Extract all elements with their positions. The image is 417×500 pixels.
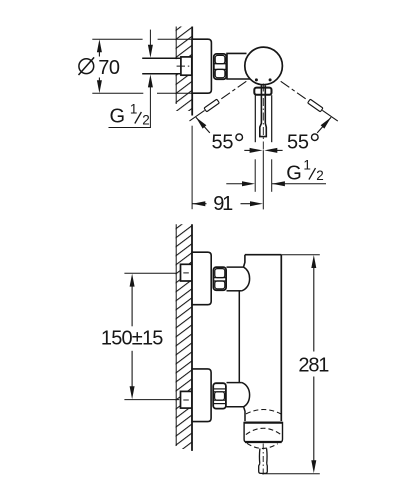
wall hatching (top view) bbox=[176, 27, 192, 112]
outlet arrow left tail bbox=[226, 183, 243, 185]
hose nipple tip bbox=[259, 464, 268, 474]
wall face line (top view) bbox=[191, 27, 193, 116]
G12 slash (right) bbox=[309, 168, 316, 180]
nut face line upper bbox=[214, 63, 227, 65]
91 dim line left bbox=[192, 203, 206, 205]
281 arrow down bbox=[311, 460, 316, 473]
dia70 ext line top bbox=[92, 38, 192, 40]
swing line left (dash-dot) bbox=[190, 110, 205, 121]
wall left boundary (front view) bbox=[175, 224, 177, 446]
outlet arrow left bbox=[242, 181, 255, 186]
91 arrow left bbox=[192, 201, 205, 206]
wall left boundary (top view) bbox=[175, 27, 177, 105]
lower boss bottom edge bbox=[227, 406, 244, 408]
svg-text:91: 91 bbox=[213, 193, 233, 215]
lever centerline bbox=[262, 84, 264, 151]
diameter symbol bbox=[79, 57, 95, 75]
55deg center tail right bbox=[277, 149, 283, 151]
outlet arrow right + G12 leader bbox=[272, 183, 326, 185]
nipple centerline bbox=[262, 444, 264, 476]
cartridge ball (top view) bbox=[245, 47, 283, 85]
upper socket centerline bbox=[183, 272, 189, 274]
upper escutcheon bbox=[192, 252, 211, 305]
150 ext line bottom bbox=[124, 399, 179, 401]
G12 slash (top-left) bbox=[135, 112, 142, 124]
supply pipe bottom line bbox=[142, 73, 181, 75]
phantom lever tip left bbox=[204, 99, 219, 112]
hose nipple right bbox=[266, 449, 268, 464]
dia70 arrow up bbox=[97, 39, 102, 52]
upper boss top edge bbox=[227, 266, 244, 268]
dia70 ext line bottom bbox=[92, 92, 192, 94]
svg-text:55: 55 bbox=[287, 131, 309, 153]
pipe centerline bbox=[177, 65, 190, 67]
nut face line lower bbox=[214, 68, 227, 70]
body left top edge bbox=[244, 255, 245, 267]
55deg center arrow left bbox=[250, 148, 263, 153]
281 arrow up bbox=[311, 255, 316, 268]
svg-text:G: G bbox=[286, 163, 302, 185]
upper boss bottom edge bbox=[227, 290, 242, 292]
outlet cup bottom band bbox=[245, 441, 282, 443]
svg-text:1: 1 bbox=[303, 158, 311, 173]
outlet cup hidden arc bbox=[246, 428, 281, 435]
lever flank line left bbox=[254, 95, 256, 142]
outlet thread ext line left bbox=[254, 159, 256, 192]
outlet hidden dome below bbox=[247, 443, 278, 448]
dia70 dim line bbox=[98, 51, 100, 82]
outlet thread ext line right bbox=[271, 159, 273, 192]
svg-text:55: 55 bbox=[212, 131, 234, 153]
upper union nut bbox=[213, 267, 226, 290]
lower socket centerline bbox=[183, 399, 189, 401]
valve body (top view) bbox=[227, 53, 251, 79]
supply pipe top line bbox=[142, 57, 181, 59]
phantom lever tip right bbox=[308, 99, 323, 112]
ball dot right bbox=[269, 78, 272, 81]
body left bottom edge bbox=[244, 407, 245, 421]
55deg center tail left bbox=[244, 149, 250, 151]
dia70 text halo bbox=[97, 58, 120, 76]
outlet cup outline bbox=[244, 422, 282, 442]
281 ext line top bbox=[281, 254, 320, 256]
escutcheon (top view) bbox=[192, 39, 211, 93]
lower boss dome bbox=[242, 383, 250, 407]
91 dim line right bbox=[241, 203, 252, 205]
150 arrow down bbox=[130, 386, 135, 399]
55deg leader right bbox=[317, 117, 331, 133]
pipe socket in wall bbox=[181, 57, 192, 75]
svg-text:150±15: 150±15 bbox=[101, 328, 163, 350]
wall face line (front view) bbox=[191, 224, 193, 451]
lever stem bbox=[260, 85, 267, 136]
svg-text:70: 70 bbox=[98, 57, 120, 79]
55deg center arrow right bbox=[264, 148, 277, 153]
G12 top leader lower bbox=[149, 87, 151, 128]
degree circle left bbox=[236, 134, 243, 141]
lever bracket bbox=[254, 88, 271, 95]
55deg leader left bbox=[196, 117, 210, 133]
upper boss dome bbox=[242, 267, 250, 291]
hose nipple left bbox=[258, 449, 260, 464]
55deg arrow right bbox=[321, 116, 333, 129]
upper socket in wall bbox=[181, 264, 192, 281]
nut chamfer cell bottom bbox=[215, 69, 225, 77]
svg-text:1: 1 bbox=[130, 101, 138, 116]
150 arrow up bbox=[130, 274, 135, 287]
wall hatching (front view) bbox=[176, 224, 192, 449]
150 ext line top bbox=[124, 272, 177, 274]
91 arrow right bbox=[250, 201, 263, 206]
degree circle right bbox=[312, 134, 319, 141]
ball dot left bbox=[255, 78, 258, 81]
281 dim line lower bbox=[313, 377, 315, 462]
outlet cup top band bbox=[244, 421, 282, 423]
281 dim line upper bbox=[313, 267, 315, 352]
lower escutcheon bbox=[192, 369, 211, 422]
lower union nut bbox=[213, 383, 226, 408]
G12 top arrow up bbox=[148, 74, 153, 87]
svg-text:2: 2 bbox=[142, 113, 150, 128]
svg-text:2: 2 bbox=[316, 168, 324, 183]
body right edge bbox=[280, 255, 282, 421]
281 ext line bottom bbox=[262, 473, 320, 475]
svg-text:G: G bbox=[110, 106, 126, 128]
dia70 arrow down bbox=[97, 80, 102, 93]
G12 top leader upper bbox=[149, 30, 151, 46]
body left mid edge bbox=[238, 291, 240, 383]
lever flank line right bbox=[271, 95, 273, 142]
lower socket in wall bbox=[181, 391, 192, 408]
swing line right (dash-dot) bbox=[322, 110, 338, 121]
lower boss top edge bbox=[227, 382, 242, 384]
body top edge bbox=[245, 254, 281, 256]
union nut (top view) bbox=[214, 54, 227, 79]
G12 label underline (top-left) bbox=[109, 127, 151, 129]
G12 top arrow down bbox=[148, 45, 153, 58]
outlet hidden arc upper bbox=[246, 410, 281, 414]
55deg arrow left bbox=[194, 116, 206, 129]
svg-text:281: 281 bbox=[298, 354, 329, 376]
150 dim line upper bbox=[131, 286, 133, 327]
150 dim line lower bbox=[131, 351, 133, 388]
nut chamfer cell top bbox=[215, 55, 225, 63]
supply pipe interior white bbox=[174, 59, 182, 73]
wall face extension line for 91 dim bbox=[191, 126, 193, 210]
